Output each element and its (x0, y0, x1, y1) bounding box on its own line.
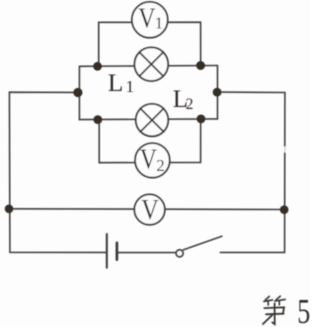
svg-text:1: 1 (155, 13, 164, 32)
svg-text:1: 1 (126, 77, 135, 96)
svg-text:2: 2 (156, 156, 165, 175)
svg-text:V: V (140, 144, 157, 176)
svg-text:5: 5 (297, 292, 310, 327)
svg-text:2: 2 (186, 96, 194, 113)
svg-text:L: L (108, 68, 124, 97)
svg-text:V: V (138, 3, 155, 35)
svg-text:V: V (141, 195, 159, 226)
